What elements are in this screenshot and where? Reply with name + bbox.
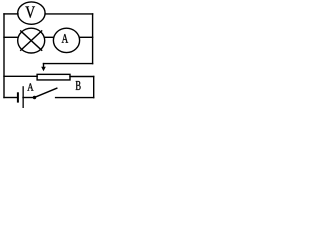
wire right vertical lower (93, 77, 95, 98)
rheostat end label B (76, 81, 81, 90)
lamp L1 circle (18, 28, 45, 53)
wire rheostat right lead (70, 76, 94, 78)
wire top right (voltmeter to right) (45, 13, 93, 15)
wire top left (to voltmeter) (4, 13, 18, 15)
wire slider feed horizontal (44, 63, 93, 65)
wire battery to switch pivot (23, 97, 33, 99)
wire left vertical (3, 14, 5, 98)
lamp L1 cross (21, 31, 42, 50)
wire lamp to ammeter (45, 36, 54, 38)
rheostat slider arrowhead (41, 67, 46, 71)
wire right vertical upper (92, 14, 94, 64)
wire battery left lead (4, 97, 17, 99)
wire bottom right (corner to switch contact) (56, 97, 94, 99)
battery BT1 positive plate (long thin) (23, 86, 24, 108)
ammeter U2 circle (53, 28, 79, 52)
wire lamp left lead (4, 36, 18, 38)
rheostat end label A (27, 83, 33, 90)
voltmeter U1 circle (18, 2, 45, 24)
battery BT1 negative plate (short thick) (17, 92, 19, 102)
wire rheostat left lead (4, 75, 37, 77)
rheostat R1 box (37, 74, 70, 80)
rheostat slider arrow stem (43, 64, 45, 68)
ammeter label A (62, 34, 68, 43)
wire ammeter right lead (79, 36, 92, 38)
switch S1 pivot dot (33, 96, 36, 99)
voltmeter label V (25, 6, 35, 17)
switch S1 blade (35, 88, 57, 97)
